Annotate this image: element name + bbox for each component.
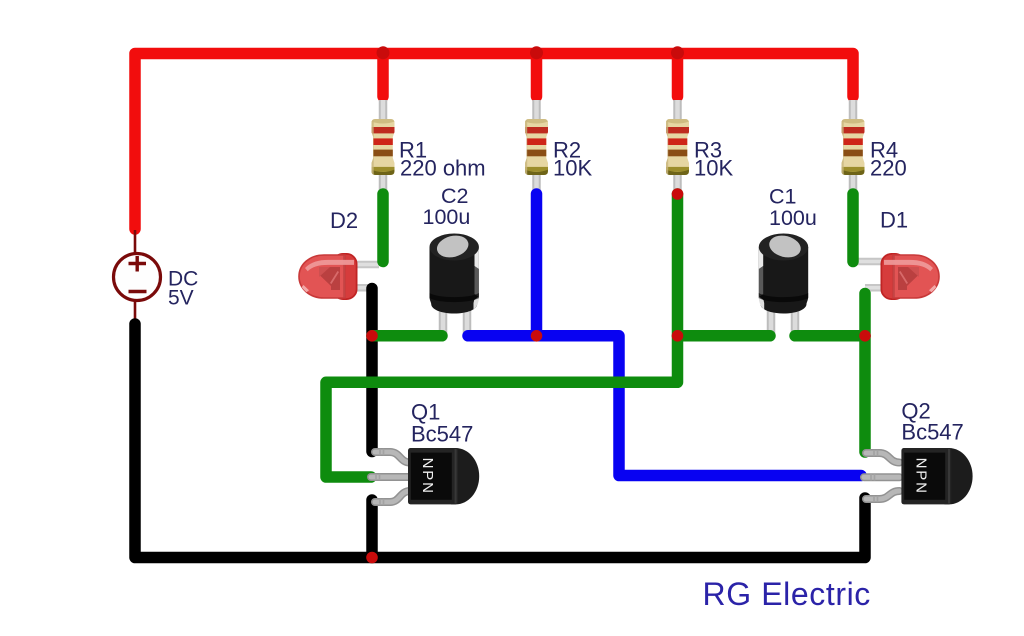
wire: red drop rail to R2 [531, 54, 543, 97]
resistor R2 [525, 118, 549, 176]
lead: Q2 emitter lead [866, 491, 899, 499]
lead: Q1 emitter lead [375, 491, 410, 502]
junction dot node A (D2/C2/Q1) [366, 330, 378, 342]
transistor Q2 [901, 448, 972, 504]
svg-text:100u: 100u [423, 205, 471, 229]
leads: resistor leads R1 R2 R3 R4 [383, 100, 853, 191]
wire: blue R2 tail down [531, 194, 543, 336]
svg-text:D1: D1 [880, 208, 908, 233]
svg-text:NPN: NPN [419, 458, 436, 495]
resistor R4 [841, 118, 865, 176]
junction dot R2-blue [531, 330, 543, 342]
DC source V1 symbol [114, 230, 161, 321]
junction dot R3-green [672, 330, 684, 342]
junction dot node B (C1/D1/Q2) [859, 330, 871, 342]
LED D2 [299, 254, 357, 299]
lead: Q1 base lead [371, 473, 410, 481]
lead crimp ridges Q1 [376, 449, 384, 505]
svg-text:Bc547: Bc547 [901, 420, 963, 445]
lead: Q2 base lead [864, 473, 899, 481]
wire: green R1 tail to D2 anode [377, 194, 389, 262]
svg-text:D2: D2 [330, 208, 358, 233]
transistor Q1 [408, 448, 479, 504]
resistor R3 [666, 118, 690, 176]
wire: red drop rail to R3 [672, 54, 684, 97]
wire: green R3 node to C1 left [678, 330, 771, 342]
svg-text:10K: 10K [694, 155, 733, 180]
wire: green C1 right to node B [795, 330, 865, 342]
svg-text:5V: 5V [168, 286, 194, 309]
lead crimp ridges Q2 [871, 450, 878, 502]
wire: green D1 cathode down to Q2 collector [859, 294, 871, 453]
LED D1 [881, 254, 939, 299]
junction dot below R3 [672, 188, 684, 200]
wire: red drop rail to R1 [377, 54, 389, 97]
svg-text:220: 220 [870, 155, 907, 180]
wire: black D2 cathode down to Q1 collector [366, 289, 378, 452]
svg-text:RG Electric: RG Electric [703, 576, 871, 612]
wire: black ground bus from DC minus to Q2 emitter [135, 324, 865, 558]
lead: Q1 collector lead [375, 452, 410, 463]
capacitor C1 [759, 232, 808, 313]
junction dot Q1 emitter-ground [366, 552, 378, 564]
wire: blue C2 right to Q2 base [468, 336, 861, 476]
wire: +5V red rail with left drop to DC and right drop to R4 [135, 54, 853, 230]
svg-text:Bc547: Bc547 [411, 421, 473, 446]
wire: green R3 tail elbow to Q1 base [326, 194, 678, 477]
wire: black Q1 emitter to ground bus [366, 500, 378, 558]
junction dot rail-R3 [671, 46, 684, 59]
junction dot rail-R1 [377, 46, 390, 59]
wire: green node A to C2 left [372, 330, 442, 342]
wire: green R4 tail to D1 anode [847, 194, 859, 262]
leads: LED leads D2 and D1 [350, 262, 886, 288]
svg-text:100u: 100u [769, 206, 817, 230]
junction dot rail-R2 [530, 46, 543, 59]
svg-text:10K: 10K [553, 155, 592, 180]
lead: Q2 collector lead [866, 453, 899, 463]
svg-text:220 ohm: 220 ohm [400, 155, 486, 180]
capacitor C2 [430, 232, 479, 313]
leads: capacitor leads C2 and C1 [443, 300, 795, 336]
